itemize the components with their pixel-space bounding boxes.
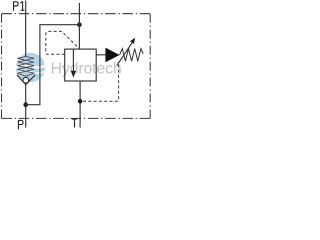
svg-text:Hydrotech: Hydrotech <box>51 61 122 78</box>
